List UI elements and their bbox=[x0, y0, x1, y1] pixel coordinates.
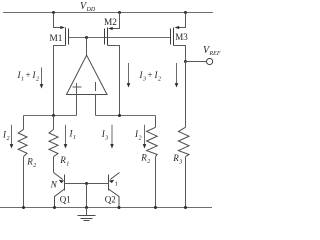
svg-text:+: + bbox=[26, 70, 31, 80]
resistor R3 bbox=[172, 62, 189, 208]
transistor Q1 bbox=[50, 173, 87, 208]
node dot R2L-gnd bbox=[22, 206, 25, 209]
label I2 left bbox=[2, 130, 10, 143]
node dot VREF junction bbox=[184, 60, 187, 63]
node dot R2R-gnd bbox=[154, 206, 157, 209]
resistor R2 (right) bbox=[140, 116, 157, 208]
right node wire bbox=[96, 115, 156, 117]
wire bases to ground bbox=[86, 184, 88, 208]
gate bus wire bbox=[69, 37, 172, 39]
label VREF bbox=[203, 45, 221, 57]
svg-text:M3: M3 bbox=[175, 32, 188, 42]
ground symbol bbox=[78, 208, 96, 221]
svg-text:1: 1 bbox=[73, 135, 76, 141]
current label I1+I2 bbox=[17, 70, 40, 83]
resistor R2 (left) bbox=[18, 116, 36, 208]
label I1 bbox=[69, 129, 77, 142]
svg-text:R: R bbox=[26, 157, 33, 167]
node dot VDD-M3 bbox=[184, 11, 187, 14]
arrow I3 bbox=[110, 125, 114, 149]
svg-text:2: 2 bbox=[33, 163, 36, 169]
svg-text:1: 1 bbox=[66, 162, 69, 168]
svg-text:REF: REF bbox=[209, 51, 221, 57]
svg-text:2: 2 bbox=[139, 136, 142, 142]
svg-text:Q1: Q1 bbox=[60, 194, 71, 204]
svg-text:2: 2 bbox=[36, 77, 39, 83]
node dot right node bbox=[118, 114, 121, 117]
transistor Q2 bbox=[87, 173, 120, 208]
svg-text:3: 3 bbox=[104, 136, 108, 142]
node dot VDD-M2 bbox=[118, 11, 121, 14]
node dot left node bbox=[52, 114, 55, 117]
op-amp U1 bbox=[67, 38, 108, 116]
ground rail bbox=[0, 207, 212, 209]
svg-text:M2: M2 bbox=[104, 18, 117, 28]
svg-text:DD: DD bbox=[86, 7, 96, 13]
node dot Q1-gnd bbox=[53, 206, 56, 209]
node dot R3-gnd bbox=[184, 206, 187, 209]
svg-text:Q2: Q2 bbox=[105, 194, 116, 204]
svg-text:2: 2 bbox=[158, 77, 161, 83]
svg-text:+: + bbox=[148, 70, 153, 80]
node dot bases junction bbox=[85, 182, 88, 185]
svg-text:2: 2 bbox=[147, 159, 150, 165]
left node wire bbox=[24, 115, 77, 117]
svg-text:R: R bbox=[140, 153, 147, 163]
svg-text:1: 1 bbox=[21, 77, 24, 83]
arrow M3 branch bbox=[175, 63, 179, 88]
svg-text:R: R bbox=[172, 153, 179, 163]
arrow I2 left bbox=[10, 125, 14, 149]
arrow M2 branch bbox=[127, 63, 131, 88]
node dot gate bus / op-amp output bbox=[85, 36, 88, 39]
resistor R1 bbox=[49, 116, 69, 173]
wire to VREF terminal bbox=[186, 61, 207, 63]
VDD rail bbox=[3, 12, 213, 14]
svg-text:M1: M1 bbox=[50, 34, 63, 44]
node dot VDD-M1 bbox=[52, 11, 55, 14]
arrow I1 bbox=[64, 125, 68, 149]
arrow I1+I2 bbox=[40, 68, 44, 89]
current label I3+I2 bbox=[139, 70, 162, 83]
label VDD bbox=[80, 1, 96, 13]
label I3 bbox=[101, 129, 109, 142]
transistor M1 bbox=[50, 13, 69, 116]
node dot Q2-gnd bbox=[118, 206, 121, 209]
transistor M3 bbox=[171, 13, 189, 62]
node dot base-gnd bbox=[85, 206, 88, 209]
label I2 right bbox=[134, 129, 142, 142]
VREF terminal bbox=[207, 58, 213, 64]
transistor M2 bbox=[104, 13, 120, 116]
arrow I2 right bbox=[143, 125, 147, 149]
svg-text:1: 1 bbox=[115, 181, 118, 188]
svg-text:3: 3 bbox=[142, 77, 146, 83]
svg-text:R: R bbox=[59, 155, 66, 165]
svg-text:N: N bbox=[50, 181, 58, 191]
svg-text:2: 2 bbox=[7, 136, 10, 142]
svg-text:3: 3 bbox=[178, 160, 182, 166]
